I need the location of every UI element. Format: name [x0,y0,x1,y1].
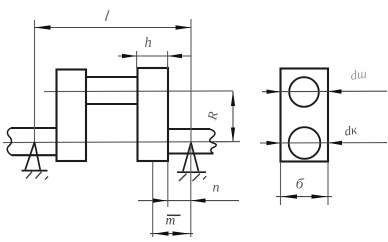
dimension n extension line at web centre [152,162,154,238]
left support hatching [26,172,48,180]
left support ground line [22,170,48,172]
right support ground line [177,171,206,173]
svg-text:dш: dш [349,66,367,83]
dimension n left arrowhead [153,198,167,202]
main journal axis centerline [3,142,240,143]
svg-text:h: h [145,35,152,51]
right journal break line [210,129,217,154]
side view web rectangle [281,69,329,162]
dimension n extension line at support [190,145,192,237]
dimension n right arrowhead [191,198,206,202]
dimension l extension line left [34,20,36,142]
dimension R line [232,91,234,142]
crankpin [86,77,138,104]
right crank web [138,68,169,161]
dimension h extension line left [136,51,138,69]
svg-text:dк: dк [343,122,359,139]
main journal circle (d k) [289,127,321,159]
dimension h line [118,55,191,57]
dimension h right outside arrowhead [168,54,182,58]
svg-text:б: б [295,176,305,193]
crankpin axis centerline [44,90,233,93]
dimension R lower extension of main centerline [216,140,240,142]
left main journal [11,128,57,155]
dimension l left arrowhead [35,25,51,30]
dimension R bottom arrowhead [231,128,235,143]
right support triangle [183,143,199,172]
dimension d_k line [260,142,387,144]
svg-text:R: R [204,110,221,122]
dimension m line [150,233,193,235]
dimension b right arrowhead [312,194,328,198]
dimension d_k left arrowhead [267,141,281,145]
dimension h extension line right [167,51,169,69]
right main journal [168,129,214,154]
right support hatching [179,174,206,181]
left crank web [57,70,87,162]
dimension d_sh line [262,90,387,93]
dimension l right arrowhead [176,25,192,30]
dimension d_k right arrowhead [329,141,343,145]
dimension d_sh left arrowhead [267,90,281,94]
svg-text:т: т [166,213,176,228]
dimension b line [276,196,332,198]
dimension b left arrowhead [281,194,297,198]
crankpin circle (d sh) [289,77,319,107]
dimension l extension line right [190,19,192,142]
label m overbar [167,214,181,216]
dimension d_sh right arrowhead [328,89,342,93]
svg-text:l: l [103,8,110,25]
dimension l line [35,27,192,29]
dimension b extension line left [280,162,282,205]
dimension m left arrowhead [154,231,169,235]
left journal break line [7,128,11,155]
dimension R top arrowhead [231,91,235,106]
dimension m right arrowhead [173,231,190,235]
svg-text:n: n [213,181,220,196]
dimension b extension line right [327,162,329,205]
left support triangle [25,142,40,170]
dimension h left outside arrowhead [122,54,137,58]
dimension n extension line at web edge [167,162,169,208]
dimension n line [138,200,239,202]
